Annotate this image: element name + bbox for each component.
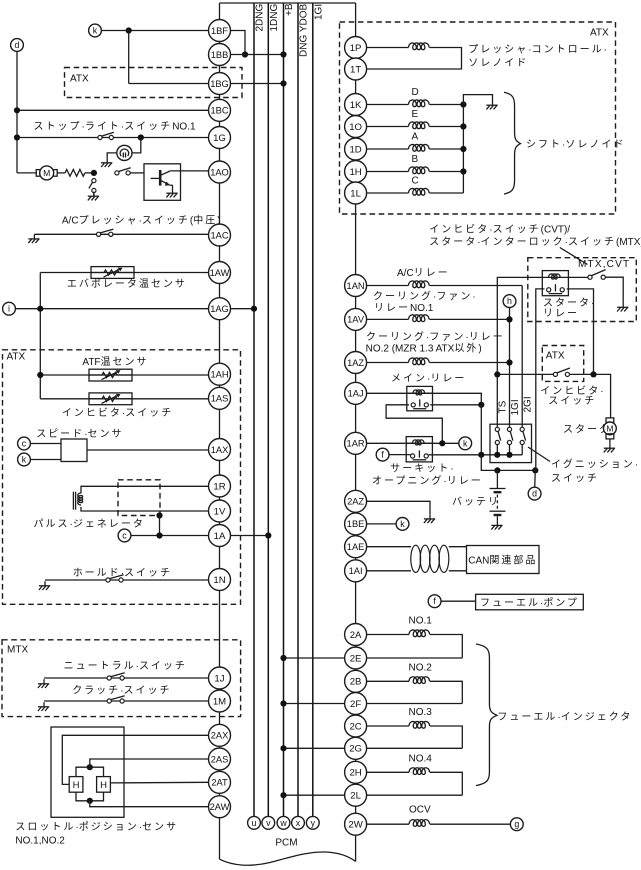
connector pin 1BB [209,44,231,66]
wire switch to ground [605,277,623,303]
wire 2W row [367,823,409,825]
connector pin 1V [209,500,231,522]
svg-text:プレッシャ·コントロール·: プレッシャ·コントロール· [468,44,607,56]
svg-text:1AW: 1AW [210,268,230,278]
svg-text:クラッチ·スイッチ: クラッチ·スイッチ [72,684,171,696]
svg-text:1K: 1K [350,100,362,111]
connector pin 1G [209,127,231,149]
connector pin 2G [345,737,367,759]
wire 2AW row [90,801,209,807]
connector pin 2A [345,624,367,646]
svg-text:v: v [266,818,271,828]
svg-text:OCV: OCV [409,805,431,816]
wire k to sensor [30,459,61,461]
wire switch to ground [93,193,95,196]
junction on k-1BF wire [126,27,132,33]
coil injector NO.2 [409,677,430,684]
svg-text:NO.4: NO.4 [409,753,433,764]
wire 2AT row [110,781,208,784]
svg-text:フューエル·インジェクタ: フューエル·インジェクタ [497,711,632,723]
svg-text:1AX: 1AX [211,445,229,455]
wire 1K to common [429,104,463,106]
wire 2C row [367,725,409,727]
wire top bracket [76,767,104,776]
wire 1AH row [40,374,208,376]
speed sensor box [61,439,87,462]
bus line B+ [283,3,285,816]
wire 1P loop to 1T [367,48,462,70]
junction 1AR/main-relay-contact [439,440,445,446]
svg-text:2B: 2B [350,677,362,688]
wire resistor to junction [85,172,94,174]
svg-text:1N: 1N [213,575,225,586]
svg-text:2AW: 2AW [210,802,230,812]
wire branch down to 1BG row [128,31,130,84]
svg-text:M: M [43,168,50,178]
wire 1L row [367,192,409,194]
wire IG2 vertical [521,286,523,428]
wire 1AJ through relay [407,392,433,394]
connector pin 1AZ [345,352,367,374]
pin v (PCM bottom connector) [262,816,275,829]
pin x (PCM bottom connector) [292,816,305,829]
wire sensor to 1AX [87,449,209,451]
PCM left pin column wire [219,3,221,859]
wire 1D to common [429,148,463,150]
svg-text:2E: 2E [350,653,362,664]
svg-text:1DNG: 1DNG [269,3,280,31]
wire main relay out to down [433,393,482,405]
wire 1AI row [367,570,411,572]
wire 1L to common [429,192,463,194]
svg-text:y: y [311,818,316,828]
coil shift solenoid B [409,167,430,174]
wire lamp to ground [107,153,117,158]
svg-text:2A: 2A [350,630,362,641]
junction 2E/B+ [280,655,286,661]
wire 2L row to B+ [284,794,463,796]
node d (battery) [528,487,541,500]
wire 1H row [367,171,409,173]
svg-text:2AX: 2AX [211,731,229,741]
node k (1AR) [459,437,472,450]
wire 1BG row to B+ bus [231,83,284,85]
svg-text:1AI: 1AI [349,566,363,576]
bus line GND1 [267,3,269,816]
svg-text:k: k [22,455,27,465]
wire ST line [497,277,542,427]
lamp (stop light) [117,145,132,160]
svg-text:NO.1: NO.1 [409,616,433,627]
wire f to fuel pump box [441,600,476,602]
junction left vertical/1AH [37,372,43,378]
wire switch to transistor box [130,172,144,174]
junction 1BB/B+ [280,51,286,57]
connector pin 2E [345,647,367,669]
coil injector NO.1 [409,630,430,637]
svg-text:2AS: 2AS [211,754,229,764]
junction 1G/lamp branch [138,134,144,140]
pulse generator coil [78,493,83,505]
coil cooling fan relay NO.2 [409,358,430,365]
svg-text:1P: 1P [350,43,362,54]
svg-text:+B: +B [284,3,295,16]
svg-text:1G: 1G [213,133,226,144]
wire 1AS row [40,398,208,400]
bus line GND2 [253,3,255,816]
svg-text:1M: 1M [213,696,226,707]
ground (starter motor) [604,444,615,453]
wire shield to 1A row [159,516,161,536]
connector pin 1T [345,58,367,80]
svg-text:2DNG: 2DNG [255,3,266,31]
wire 1N row [45,579,209,581]
ground (transistor emitter) [166,189,177,198]
wire 2F row to B+ [284,703,463,705]
junction battery feed/contact [478,452,484,458]
connector pin 2AZ [345,490,367,512]
wire 2H row [367,771,409,773]
junction shield/1A row [156,532,162,538]
wire main relay contact left [386,405,442,444]
wire 1AR row [367,442,407,444]
ATX dashed box (left) [3,350,241,605]
svg-text:TS: TS [498,400,509,413]
node i [3,302,16,315]
svg-text:DNG YDOB: DNG YDOB [299,4,310,57]
wire 1AV to IG1 [429,318,509,320]
svg-text:NO.3: NO.3 [409,707,433,718]
svg-text:CAN関連部品: CAN関連部品 [468,554,537,567]
junction 1BB row [242,51,248,57]
connector pin 1BC [209,99,231,121]
connector pin 1AJ [345,382,367,404]
svg-text:ストップ·ライト·スイッチNO.1: ストップ·ライト·スイッチNO.1 [34,120,196,132]
connector pin 1P [345,37,367,59]
connector pin 1O [345,116,367,138]
connector pin 1AW [209,262,231,284]
ATX dashed box (inhibitor) [542,346,583,382]
svg-text:スタータ·: スタータ· [543,297,594,309]
junction d-node top [532,467,538,473]
wire c to sensor [30,443,61,445]
svg-text:シフト·ソレノイド: シフト·ソレノイド [526,139,625,150]
wire 2G row to B+ [284,747,463,749]
svg-text:リレー: リレー [543,308,579,319]
wire battery to junction [496,470,498,488]
svg-text:1T: 1T [350,64,361,75]
connector pin 1AG [209,298,231,320]
wire 1AJ row [367,392,407,394]
svg-text:u: u [252,818,257,828]
wire 1BF jog to 1BB row [231,31,246,55]
svg-text:スロットル·ポジション·センサ: スロットル·ポジション·センサ [15,821,178,833]
connector pin 2H [345,761,367,783]
svg-text:1AV: 1AV [347,315,365,325]
svg-text:1AN: 1AN [347,281,365,291]
wire to 1BG [129,83,209,85]
svg-text:パルス·ジェネレータ: パルス·ジェネレータ [34,518,145,530]
wire 2AS row [90,759,209,767]
svg-text:スイッチ: スイッチ [548,395,596,407]
wire 1BB row to B+ bus [231,54,284,56]
connector pin 2AW [209,796,231,818]
wire 2E row to B+ [284,657,463,659]
svg-text:1GI: 1GI [510,399,521,415]
svg-text:イグニッション·: イグニッション· [551,457,638,470]
wire 1G row [17,137,209,139]
wire main relay contact right [430,404,481,406]
svg-text:H: H [73,780,80,791]
wire 1H to common [429,171,463,173]
wire starter relay contact right [567,289,594,375]
node g [510,818,523,831]
junction common/1K [460,101,466,107]
node k (1BE) [396,518,409,531]
wire 1AZ to IG1 [429,362,509,364]
brace fuel injectors [476,644,497,786]
svg-text:1BF: 1BF [211,26,228,36]
svg-text:MTX,CVT: MTX,CVT [578,259,630,270]
svg-text:1BB: 1BB [211,50,229,60]
svg-text:B: B [412,154,419,165]
thermistor (ATF temp sensor) [89,369,132,381]
connector pin 2L [345,784,367,806]
throttle sensor box [51,727,124,817]
junction 2L/B+ [280,792,286,798]
wire bottom bracket [76,792,104,801]
junction 1A/GND1 [265,532,271,538]
wire coil to switch [568,276,588,278]
node f (fuel pump) [428,595,441,608]
junction ST/inhibitor [494,371,500,377]
resistor (blower) [65,170,85,177]
wire battery feed vertical [480,405,482,455]
switch stop light (1G row) [98,132,114,139]
ground (2AZ) [424,514,435,523]
svg-text:2GI: 2GI [523,396,534,412]
coil A/C relay [409,281,430,288]
svg-text:1GI: 1GI [314,4,325,20]
wire 1D row [367,148,409,150]
junction shield tap [156,512,162,518]
PCM top outline wire [220,2,356,4]
svg-text:A/Cリレー: A/Cリレー [397,268,450,279]
wire 1AV row [367,318,409,320]
wire 2A row [367,634,409,636]
switch inhibitor (right) [553,368,570,377]
node h [503,295,516,308]
ground (1AO branch) [88,192,99,201]
svg-text:k: k [400,519,405,529]
coil injector NO.3 [409,721,430,728]
ground (MTX CVT) [617,303,628,312]
pin y (PCM bottom connector) [306,816,319,829]
svg-text:1BG: 1BG [210,79,229,89]
thermistor (evaporator temp sensor) [91,267,134,279]
svg-text:2AT: 2AT [211,778,228,788]
ignition switch box [490,424,532,462]
junction 1AG/GND2 [251,306,257,312]
connector pin 1BG [209,73,231,95]
wire 1AR through relay [406,442,432,444]
wire coil to 1V [81,507,209,511]
coil shift solenoid E [409,122,430,129]
svg-text:A/Cプレッシャ·スイッチ(中圧): A/Cプレッシャ·スイッチ(中圧) [62,213,221,226]
ATX dashed box (top right) [340,22,616,214]
svg-text:2G: 2G [349,744,362,755]
svg-text:k: k [93,26,98,36]
connector pin 1BF [209,20,231,42]
svg-text:1AG: 1AG [210,304,229,314]
switch A/C (1AO row) [115,168,131,175]
MTX dashed box [2,640,241,717]
ground (1AC row) [28,234,39,243]
wire 1AC row [34,233,208,235]
ground (battery) [491,521,502,530]
ground (neutral sw) [38,679,49,688]
wire 2AZ row [367,501,430,514]
shield dashed box (pulse gen) [118,480,160,516]
wire OCV to g [430,823,511,825]
pin w (PCM bottom connector) [277,816,290,829]
pin u (PCM bottom connector) [248,816,261,829]
bus line BODY GND [297,3,299,816]
svg-text:バッテリ: バッテリ [452,496,500,508]
svg-text:2H: 2H [349,768,361,779]
wire d vertical [16,51,18,172]
wire 2A loop to 2E [430,635,462,659]
wire 1M row [44,700,209,702]
junction 2F/B+ [280,700,286,706]
junction relay out/contact [478,402,484,408]
ignition switch contact pair IG2 [520,427,525,455]
svg-text:2AZ: 2AZ [347,497,364,507]
ATX dashed box (1BG) [65,68,243,98]
svg-text:スピード·センサ: スピード·センサ [36,428,123,440]
connector pin 1M [209,690,231,712]
junction 1AO row [91,170,97,176]
junction common/1H [460,168,466,174]
svg-text:w: w [279,818,287,828]
junction IG1/1AZ [506,359,512,365]
svg-text:1BC: 1BC [210,106,228,116]
relay starter (coil+contacts) [542,271,568,296]
svg-text:x: x [296,818,301,828]
svg-text:NO.1,NO.2: NO.1,NO.2 [15,836,65,847]
wire coil to 1R [81,486,209,493]
wire c to 1A [131,535,209,537]
svg-text:2F: 2F [350,699,361,710]
node k (speed) [18,453,31,466]
wire 1AG row [15,308,208,310]
junction 1BG/B+ [280,80,286,86]
connector pin 1BE [345,513,367,535]
connector pin 2C [345,715,367,737]
wire 1AW row [40,272,208,274]
junction 2G/B+ [280,745,286,751]
connector pin 1L [345,182,367,204]
svg-text:1V: 1V [214,506,226,517]
connector pin 2B [345,670,367,692]
svg-text:h: h [507,296,512,306]
svg-text:1L: 1L [350,188,361,199]
svg-text:ATX: ATX [590,27,609,38]
ignition switch contact pair ST [495,427,501,455]
wire 1J row [44,677,209,679]
wire shift solenoid common vertical [462,105,464,194]
switch neutral [107,673,125,680]
wire k to 1BF [101,30,208,32]
wire 2B row [367,680,409,682]
node c (speed) [18,437,31,450]
wire 1AR to k [432,442,458,444]
svg-text:メイン·リレー: メイン·リレー [391,374,466,385]
junction ign ST common [494,452,500,458]
connector pin 1AH [209,363,231,385]
transistor Q1 [151,170,173,189]
coil shift solenoid C [409,188,430,195]
svg-text:1AE: 1AE [347,542,365,552]
connector pin 2F [345,693,367,715]
junction top bracket [87,764,93,770]
PCM bottom wavy outline wire [220,852,356,865]
coil cooling fan relay NO.1 [409,315,430,322]
svg-text:d: d [15,40,20,50]
svg-text:1A: 1A [214,531,226,542]
wire f to contact [389,454,410,456]
ground (shift solenoid) [486,101,497,110]
svg-text:ATX: ATX [70,74,89,85]
svg-text:E: E [412,109,419,120]
junction IG1/1AV [506,316,512,322]
wire 1P row [367,47,409,49]
wire 1AN row [367,285,409,287]
svg-text:ニュートラル·スイッチ: ニュートラル·スイッチ [64,660,187,672]
wire left vertical (1AW-1AS) [39,273,41,399]
svg-text:1AH: 1AH [210,370,228,380]
svg-text:1O: 1O [349,122,362,133]
connector pin 2AT [209,771,231,793]
svg-text:MTX: MTX [7,644,28,655]
svg-text:C: C [412,175,419,186]
svg-text:ATX: ATX [7,351,26,362]
svg-text:2L: 2L [350,791,361,802]
wire 1O row [367,126,409,128]
svg-text:ATF温センサ: ATF温センサ [82,356,148,368]
junction i-wire/left vertical [37,306,43,312]
coil pressure control solenoid [409,43,430,50]
switch clutch [107,696,125,703]
junction bottom bracket [87,798,93,804]
svg-text:2C: 2C [349,721,361,732]
svg-text:PCM: PCM [275,838,297,849]
svg-text:1AC: 1AC [210,230,228,240]
junction d/1BC [14,107,20,113]
svg-text:1R: 1R [213,481,225,492]
svg-text:スタータ·インターロック·スイッチ(MTX): スタータ·インターロック·スイッチ(MTX) [429,236,641,248]
junction common/1D [460,146,466,152]
connector pin 1AC [209,224,231,246]
wire 1AG to GND2 [231,308,255,310]
junction d/1G [14,134,20,140]
wire d stub [534,470,537,487]
svg-text:c: c [122,531,127,541]
connector pin 1A [209,525,231,547]
wire IG1 vertical [509,308,511,428]
svg-text:オープニング·リレー: オープニング·リレー [372,474,483,487]
hall element H1 [69,777,83,793]
